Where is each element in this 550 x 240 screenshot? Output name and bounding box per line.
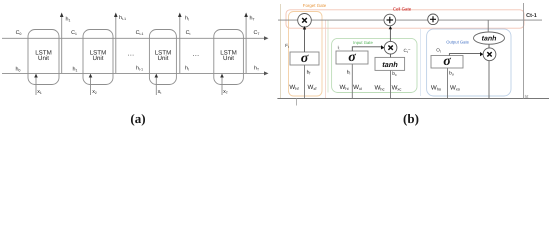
wire input sigma down — [351, 64, 353, 99]
rail output (blue) — [420, 29, 422, 96]
svg-text:Ct~: Ct~ — [404, 47, 411, 54]
svg-text:Ct: Ct — [186, 30, 191, 36]
svg-text:(b): (b) — [403, 111, 419, 126]
svg-text:tanh: tanh — [382, 60, 398, 69]
wire cell to tanh ellipse — [487, 20, 489, 32]
add circle 2 — [428, 14, 439, 25]
svg-text:bf: bf — [307, 70, 311, 76]
wire input multiply to add — [389, 26, 392, 41]
wire right vertical — [523, 3, 525, 99]
svg-text:σ: σ — [443, 54, 451, 69]
wire input sigma to multiply — [352, 45, 384, 51]
svg-text:x1: x1 — [37, 89, 42, 95]
rail h input (tan) — [280, 4, 282, 98]
rail x input (green) — [327, 20, 329, 93]
sigma forget box — [290, 51, 319, 66]
svg-text:it: it — [338, 45, 340, 51]
lstm unit 3 — [149, 30, 176, 85]
svg-text:Unit: Unit — [38, 55, 49, 62]
svg-text:xt: xt — [158, 89, 162, 95]
svg-text:Wxf: Wxf — [308, 84, 318, 91]
svg-text:h1: h1 — [66, 17, 71, 23]
svg-text:Whf: Whf — [289, 84, 299, 91]
lstm unit 2 text — [90, 49, 107, 62]
wire output multiply down — [488, 61, 490, 99]
sigma output box — [431, 54, 463, 69]
svg-text:ht-1: ht-1 — [136, 66, 143, 72]
svg-text:x2: x2 — [92, 89, 97, 95]
wire x2 input arrow — [89, 74, 93, 95]
svg-text:Wxi: Wxi — [353, 84, 362, 91]
svg-text:xT: xT — [223, 89, 228, 95]
input gate box — [332, 38, 417, 92]
lstm unit 4 text — [220, 49, 237, 62]
wire xt stub — [296, 99, 298, 106]
rail cell (pink) — [325, 20, 327, 98]
svg-text:Unit: Unit — [223, 55, 234, 62]
svg-text:Unit: Unit — [157, 55, 168, 62]
lstm unit 3 text — [155, 49, 172, 62]
svg-text:ht: ht — [185, 16, 189, 22]
wire output sigma to multiply — [449, 52, 483, 56]
svg-text:Who: Who — [431, 85, 442, 92]
wire bottom h rail — [277, 98, 549, 100]
wire xT input arrow — [220, 74, 224, 95]
svg-text:σ: σ — [301, 51, 309, 66]
svg-text:hT: hT — [249, 16, 254, 22]
svg-text:σ: σ — [348, 50, 356, 65]
svg-text:bc: bc — [392, 71, 397, 77]
wire xt input arrow — [155, 74, 159, 95]
tanh input box — [375, 57, 405, 70]
svg-text:Ot: Ot — [436, 48, 441, 54]
wire h2 output arrow — [114, 13, 118, 74]
wire ellipse to multiply — [488, 44, 490, 48]
lstm unit 1 text — [35, 49, 52, 62]
svg-text:Cell Gate: Cell Gate — [393, 6, 412, 11]
svg-text:Whc: Whc — [374, 85, 384, 92]
output gate box — [427, 29, 511, 96]
svg-text:Ct-1: Ct-1 — [526, 13, 537, 19]
svg-text:ht: ht — [185, 66, 189, 72]
cell gate band — [286, 10, 524, 28]
svg-text:Unit: Unit — [92, 55, 103, 62]
lstm unit 2 — [83, 30, 113, 85]
svg-text:h1: h1 — [73, 66, 78, 72]
add circle 1 — [384, 14, 396, 26]
forget gate box — [289, 12, 323, 97]
wire forget sigma down — [304, 65, 306, 99]
svg-text:Wxc: Wxc — [392, 85, 402, 92]
svg-text:CT: CT — [254, 30, 260, 36]
lstm unit 1 — [28, 30, 59, 85]
svg-text:bo: bo — [449, 71, 454, 77]
tanh output ellipse — [474, 32, 505, 44]
wire ht output arrow — [178, 13, 182, 74]
wire h rail — [2, 71, 269, 75]
multiply output circle — [483, 48, 496, 61]
svg-text:Input Gate: Input Gate — [353, 40, 373, 45]
svg-text:C0: C0 — [16, 30, 22, 36]
wire x1 input arrow — [34, 74, 38, 95]
wire C rail — [2, 36, 269, 40]
svg-text:Whi: Whi — [340, 84, 349, 91]
svg-text:h0: h0 — [16, 66, 21, 72]
svg-text:hT: hT — [254, 66, 259, 72]
svg-text:Output Gate: Output Gate — [446, 40, 469, 45]
wire h1 output arrow — [60, 13, 64, 74]
multiply input circle — [384, 41, 397, 54]
svg-text:C1: C1 — [71, 30, 77, 36]
svg-text:bi: bi — [347, 70, 351, 76]
sigma input box — [336, 50, 368, 65]
svg-text:...: ... — [127, 51, 134, 58]
svg-text:(a): (a) — [130, 111, 145, 126]
wire cell state line — [278, 19, 542, 21]
wire output sigma down — [447, 68, 449, 99]
svg-text:Forget Gate: Forget Gate — [303, 3, 327, 8]
wire hT output arrow — [244, 13, 248, 74]
wire forget sigma to multiply — [303, 26, 306, 52]
svg-text:Wxo: Wxo — [450, 85, 461, 92]
wire tanh to multiply — [390, 54, 392, 57]
svg-text:tanh: tanh — [482, 35, 497, 43]
svg-text:ht-1: ht-1 — [119, 15, 126, 21]
svg-text:...: ... — [192, 51, 199, 58]
multiply forget circle — [298, 13, 312, 27]
wire tanh down — [390, 70, 392, 98]
svg-text:Ct-1: Ct-1 — [136, 30, 144, 36]
lstm unit 4 — [214, 30, 244, 85]
